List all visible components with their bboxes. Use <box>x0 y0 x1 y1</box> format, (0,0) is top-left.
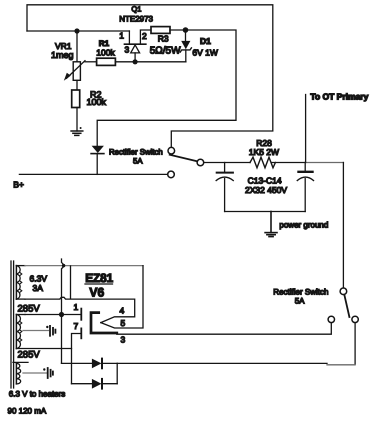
wire heater pin5 top run <box>25 265 143 267</box>
svg-text:1K5 2W: 1K5 2W <box>249 147 279 157</box>
wire VR1 to R2 <box>76 81 78 91</box>
wire pin1 plate lead <box>25 314 81 316</box>
wire R1 left lead from VR1 wiper <box>85 61 97 63</box>
svg-text:1: 1 <box>74 302 79 312</box>
wire top loop from regulator to switch <box>27 5 273 148</box>
node jog junction <box>62 264 65 267</box>
switch SW2 rectifier switch right <box>328 288 358 323</box>
svg-text:EZ81: EZ81 <box>85 271 113 285</box>
wire to OT primary stub <box>305 95 307 163</box>
node pin1 junction <box>59 312 64 317</box>
svg-text:V6: V6 <box>89 285 104 299</box>
svg-text:3: 3 <box>121 335 126 345</box>
wire heater pin5 route <box>101 266 143 328</box>
svg-text:285V: 285V <box>18 304 41 315</box>
wire SW2 right pole to diode output line <box>354 323 356 365</box>
wire heater pin4 route <box>25 297 135 322</box>
wire gray jog segment <box>327 364 355 366</box>
svg-text:5: 5 <box>121 318 126 328</box>
winding 6.3V 3A <box>16 266 25 300</box>
wire VR1 top <box>76 31 78 62</box>
svg-text:6V 1W: 6V 1W <box>192 47 218 57</box>
svg-text:Rectifier Switch: Rectifier Switch <box>273 287 328 296</box>
wire R28 to OT node <box>272 162 306 164</box>
zener diode D1 <box>180 30 191 62</box>
svg-text:1meg: 1meg <box>51 50 74 60</box>
diode solid state top <box>62 359 118 369</box>
winding 285V-0-285V <box>16 315 71 349</box>
wire regulator output to rectifier diode <box>97 30 236 146</box>
plate pin1 bar <box>80 309 82 320</box>
svg-text:6.3 V to heaters: 6.3 V to heaters <box>9 390 65 399</box>
svg-text:5A: 5A <box>295 296 305 305</box>
diode solid state bottom <box>72 379 118 389</box>
capacitor C13 <box>216 163 233 212</box>
svg-text:100k: 100k <box>87 97 107 107</box>
wire HV center tap <box>23 326 55 336</box>
svg-text:R1: R1 <box>99 39 110 48</box>
wire switch to R28 <box>204 162 250 164</box>
svg-text:7: 7 <box>74 321 79 331</box>
node D1 top junction <box>183 27 189 33</box>
resistor R1 <box>97 58 116 65</box>
wire R2 to ground <box>76 108 78 132</box>
capacitor C14 <box>297 163 313 212</box>
svg-text:B+: B+ <box>13 179 24 189</box>
svg-text:3A: 3A <box>33 283 44 293</box>
wire diode output line <box>117 362 327 364</box>
wire OT node to right switch drop <box>305 162 343 164</box>
diode series rectifier <box>91 146 104 175</box>
wire SW2 left pole to tube pin3 line <box>117 323 331 335</box>
svg-text:90 120 mA: 90 120 mA <box>8 407 47 416</box>
svg-text:5Ω/5W: 5Ω/5W <box>150 45 181 56</box>
transformer core <box>10 261 12 388</box>
node VR1 top junction <box>74 28 79 33</box>
underline EZ81 <box>85 283 113 285</box>
svg-text:D1: D1 <box>200 36 211 46</box>
wire EZ81 frame left edge <box>70 266 72 299</box>
switch SW1 rectifier switch <box>168 147 204 177</box>
wire R3 to D1 node <box>170 29 186 31</box>
wire diode outputs join <box>116 363 118 383</box>
wire capacitor bottoms <box>225 211 306 213</box>
wire top rail <box>27 30 129 32</box>
resistor R28 zigzag <box>250 157 275 168</box>
cathode bracket EZ81 <box>91 313 117 333</box>
svg-text:2: 2 <box>142 31 147 41</box>
resistor R2 <box>72 90 80 108</box>
wire heater center tap <box>23 368 53 378</box>
plate pin7 bar <box>80 328 82 338</box>
potentiometer VR1 <box>64 61 85 81</box>
wire R1 to Q1 pin3 and D1 bottom <box>115 61 185 63</box>
wire B+ rail <box>19 173 167 175</box>
svg-text:Q1: Q1 <box>131 5 141 14</box>
svg-text:3: 3 <box>125 44 130 54</box>
resistor R3 <box>151 27 170 34</box>
svg-text:2X32 450V: 2X32 450V <box>245 185 287 195</box>
svg-text:285V: 285V <box>18 350 41 361</box>
svg-text:Rectifier Switch: Rectifier Switch <box>109 147 163 156</box>
node Q1 cathode junction <box>133 59 138 64</box>
svg-text:To OT Primary: To OT Primary <box>310 91 368 101</box>
svg-text:4: 4 <box>120 306 125 316</box>
ground power ground <box>265 212 277 237</box>
wire pin7 lead down to bottom diode <box>72 334 81 384</box>
wire plate feed vertical 285V top to diode <box>62 259 64 363</box>
winding 6.3V heaters <box>13 362 28 384</box>
ground signal ground below R2 <box>71 127 83 135</box>
svg-text:1: 1 <box>119 31 124 41</box>
svg-text:power ground: power ground <box>279 221 328 230</box>
svg-text:6.3V: 6.3V <box>30 274 48 284</box>
regulator Q1 NTE2973 symbol <box>125 30 152 62</box>
svg-text:5A: 5A <box>133 157 143 166</box>
svg-text:R3: R3 <box>158 34 169 44</box>
svg-text:NTE2973: NTE2973 <box>119 15 153 24</box>
svg-text:100k: 100k <box>96 48 115 58</box>
